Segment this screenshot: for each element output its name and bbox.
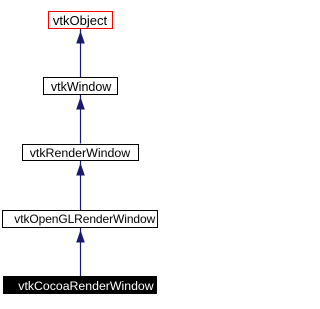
node vtkRenderWindow	[22, 144, 140, 162]
node vtkOpenGLRenderWindow	[2, 210, 158, 228]
wire arrow vtkRenderWindow to vtkWindow	[76, 95, 85, 144]
wire arrows svg layer	[0, 0, 162, 309]
node vtkObject	[48, 11, 113, 29]
node vtkWindow	[43, 77, 118, 95]
wire arrow vtkCocoaRenderWindow to vtkOpenGLRenderWindow	[76, 228, 85, 276]
wire arrow vtkWindow to vtkObject	[76, 29, 85, 77]
wire arrow vtkOpenGLRenderWindow to vtkRenderWindow	[76, 161, 85, 210]
node vtkCocoaRenderWindow (current class, filled black)	[3, 276, 157, 294]
